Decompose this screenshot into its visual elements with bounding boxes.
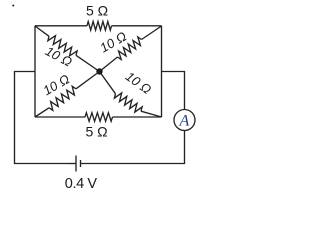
svg-text:0.4 V: 0.4 V [65,176,98,192]
wire bottom to ammeter [81,131,185,164]
resistor 5ohm top [87,22,112,31]
wire diagonal lower-left to node [76,72,100,89]
resistor 10ohm upper-left [48,36,77,56]
wire battery left lead [68,163,76,165]
wire diagonal upper-left lead [35,26,49,36]
resistor 10ohm lower-right [114,93,142,112]
wire bottom edge right [113,116,162,118]
wire left branch [15,72,69,164]
wire diagonal upper-right lead [142,26,162,40]
wire left edge [34,26,36,117]
ammeter circle A [174,110,195,131]
svg-text:A: A [179,112,190,129]
resistor 10ohm upper-right [118,37,142,60]
resistor 5ohm bottom [85,113,113,122]
svg-text:10 Ω: 10 Ω [43,43,75,69]
wire diagonal upper-right to node [100,57,118,72]
wire top edge left [35,25,87,27]
wire right edge [161,26,163,117]
battery short plate [80,160,82,167]
node center junction dot [96,68,102,74]
wire diagonal lower-right from node [100,72,116,94]
svg-text:5 Ω: 5 Ω [86,2,108,18]
wire ammeter to bridge [162,72,185,110]
resistor 10ohm lower-left [49,86,76,110]
svg-text:10 Ω: 10 Ω [123,69,155,98]
svg-text:5 Ω: 5 Ω [86,123,108,139]
wire bottom edge left [35,116,85,118]
wire diagonal lower-left lead [35,108,49,117]
stray dot top-left [12,5,14,7]
wire diagonal lower-right lead [141,111,162,117]
battery long plate [75,156,77,172]
wire top edge right [112,25,162,27]
wire diagonal upper-left to node [76,55,100,71]
